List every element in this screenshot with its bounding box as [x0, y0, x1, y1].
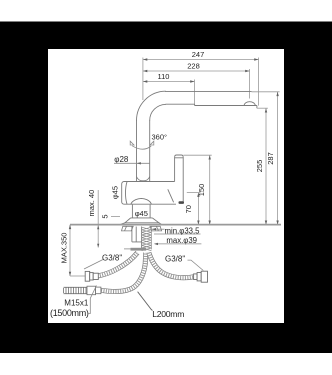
drawing card: [48, 49, 284, 323]
escutcheon flange tier1: [125, 218, 159, 223]
ext line spout top to 287: [252, 91, 280, 93]
spout leg right edge: [149, 120, 151, 182]
svg-text:φ45: φ45: [135, 209, 148, 218]
hose C outline: [149, 253, 194, 278]
svg-text:5: 5: [101, 214, 110, 218]
max phi39 underline: [156, 243, 201, 245]
G3/8 right leader: [188, 260, 204, 270]
bell arch: [131, 198, 152, 204]
swivel arrow left: [130, 141, 134, 145]
M15 leader: [89, 286, 97, 314]
locknut right wing: [150, 226, 162, 231]
shank threaded part: [142, 227, 152, 251]
svg-text:287: 287: [266, 152, 275, 165]
bottom white band: [0, 353, 332, 375]
head step: [194, 104, 196, 105]
dim line 247: [143, 59, 259, 61]
svg-text:360°: 360°: [152, 133, 168, 142]
countertop line: [70, 224, 281, 226]
phi28 arrow: [137, 162, 141, 164]
svg-text:228: 228: [187, 62, 200, 71]
svg-text:L200mm: L200mm: [152, 309, 184, 319]
min phi33.5 underline: [154, 233, 201, 235]
ext line right 228: [249, 69, 251, 99]
dim line 150: [209, 155, 211, 225]
ext line axis 110: [194, 80, 196, 106]
handle right edge: [182, 157, 184, 202]
head underside: [195, 105, 257, 107]
tick 5: [111, 216, 120, 218]
svg-text:φ28: φ28: [114, 155, 129, 164]
dim line 287: [277, 92, 279, 225]
tick handle top: [184, 154, 212, 156]
spout bend inner arc: [150, 104, 166, 120]
locknut left wing: [122, 226, 134, 231]
svg-text:255: 255: [255, 160, 264, 173]
handle left edge: [174, 157, 176, 182]
spout leg left edge: [136, 120, 138, 182]
max40 dim line: [97, 190, 99, 248]
top white band: [0, 0, 332, 22]
svg-text:G3/8": G3/8": [165, 254, 185, 263]
hose A outline: [98, 253, 138, 276]
pipe bottom edge: [165, 103, 194, 105]
swivel arrow right: [150, 141, 154, 145]
min phi33.5 leader arrow: [152, 228, 165, 230]
svg-text:G3/8": G3/8": [102, 253, 122, 262]
body left cap seam: [126, 182, 128, 204]
svg-text:max. 40: max. 40: [87, 190, 96, 217]
hose B outline: [101, 253, 146, 292]
svg-text:(1500mm): (1500mm): [50, 308, 89, 318]
L200 leader: [138, 292, 153, 311]
swivel arc: [132, 146, 151, 149]
tick spray outlet: [187, 192, 201, 194]
svg-text:MAX.350: MAX.350: [60, 233, 69, 264]
spout socket cup: [137, 177, 150, 181]
dim line 255: [265, 108, 267, 225]
phi28 underline leader: [114, 162, 150, 164]
escutcheon flange tier2: [120, 223, 161, 225]
aerator bump: [244, 102, 256, 106]
MAX350 bottom tick: [70, 275, 85, 277]
ext line head underside to 255: [257, 107, 268, 109]
handle top cap: [175, 155, 184, 158]
svg-text:247: 247: [192, 50, 205, 59]
svg-text:70: 70: [184, 205, 193, 213]
clamp bar: [131, 248, 147, 251]
handle pivot: [179, 201, 185, 204]
body right diagonal joint: [168, 189, 174, 202]
pipe top edge: [165, 90, 252, 92]
body outline: [122, 182, 176, 205]
MAX350 dim line: [69, 225, 71, 276]
phi45 base cylinder: [131, 205, 153, 218]
spout bend outer arc: [137, 91, 166, 120]
dim line 70: [197, 193, 199, 225]
head tip edge: [256, 106, 258, 109]
svg-text:M15x1: M15x1: [64, 299, 89, 308]
shank plain part: [132, 227, 142, 250]
svg-text:110: 110: [158, 72, 170, 81]
ext line right 247: [258, 58, 260, 106]
svg-text:φ45: φ45: [111, 186, 120, 199]
dim line 110: [143, 81, 195, 83]
ext line left axis: [142, 58, 144, 101]
G3/8 left leader: [84, 260, 103, 270]
dim line 228: [143, 70, 250, 72]
